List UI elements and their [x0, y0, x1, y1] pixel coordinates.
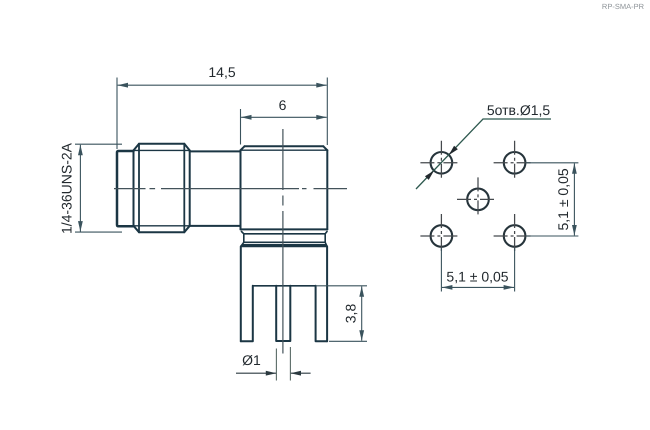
hex nut outer vertical edges — [134, 150, 190, 225]
dimension 6 arrowheads — [241, 115, 327, 120]
hex nut top edge — [139, 143, 184, 145]
flange lines below groove — [241, 242, 327, 246]
mid cylinder top edge — [190, 150, 241, 152]
dimension 5,1 ± 0,05 right extension and dimension lines — [526, 163, 578, 236]
vertical body side edges — [241, 150, 328, 229]
vertical centerline — [282, 129, 284, 354]
svg-text:5,1 ± 0,05: 5,1 ± 0,05 — [446, 269, 508, 285]
cross top-right hole — [494, 162, 536, 164]
cross bottom-left hole — [420, 235, 462, 237]
right mounting leg — [316, 286, 328, 342]
center contact pin — [276, 286, 290, 341]
vertical body top corner chamfers — [241, 146, 328, 150]
dimension 5,1 ± 0,05 bottom arrowheads — [442, 285, 514, 290]
dimension Ø1 arrowheads — [266, 371, 301, 376]
leader line for 5 holes note — [416, 119, 551, 189]
footprint mounting holes — [431, 152, 526, 247]
dimension 6 extension and dimension lines — [241, 109, 327, 145]
side view outline of right-angle connector — [117, 144, 327, 341]
dimension 3,8 arrowheads — [359, 286, 364, 341]
vertical body chamfer base line — [241, 149, 328, 151]
hex nut left corner chamfers — [134, 144, 140, 232]
ring groove band — [242, 232, 328, 243]
svg-text:14,5: 14,5 — [208, 64, 235, 80]
dimension Ø1 dimension lines — [236, 372, 311, 374]
thread dimension arrowheads — [78, 145, 83, 232]
horizontal centerline — [114, 188, 347, 190]
hex nut chamfer base lines — [134, 150, 190, 225]
svg-text:1/4-36UNS-2A: 1/4-36UNS-2A — [59, 142, 75, 234]
hole center — [467, 189, 489, 211]
mid cylinder bottom edge — [190, 225, 241, 227]
dimension 14,5 extension and dimension lines — [117, 78, 327, 150]
svg-text:6: 6 — [279, 97, 287, 113]
svg-text:5отв.Ø1,5: 5отв.Ø1,5 — [487, 102, 551, 118]
cross center hole — [457, 198, 499, 200]
hole top-right — [504, 152, 526, 174]
leg cutout shoulder line — [253, 285, 316, 287]
vertical body bottom edge — [241, 228, 328, 230]
thread dimension extension and dimension lines — [75, 144, 122, 232]
svg-text:RP-SMA-PR: RP-SMA-PR — [602, 2, 645, 11]
hole bottom-left — [431, 225, 453, 247]
hex nut inner vertical edges — [139, 144, 184, 232]
dimension Ø1 extension lines — [276, 347, 290, 381]
cross top-left hole — [420, 162, 462, 164]
dimension 3,8 extension and dimension lines — [316, 286, 367, 342]
hole bottom-right — [504, 225, 526, 247]
svg-text:5,1 ± 0,05: 5,1 ± 0,05 — [555, 168, 571, 230]
dimension 5,1 ± 0,05 bottom extension and dimension lines — [441, 248, 514, 292]
hex nut bottom edge — [139, 231, 184, 233]
hole centerline crosses — [420, 141, 535, 258]
lower body side edges — [241, 246, 327, 341]
leader arrowhead lower — [425, 171, 434, 180]
hex nut right corner chamfers — [184, 144, 189, 232]
svg-text:3,8: 3,8 — [343, 304, 359, 324]
svg-text:Ø1: Ø1 — [242, 352, 261, 368]
front coupling ring — [117, 151, 134, 226]
left mounting leg — [241, 286, 253, 342]
dimension 14,5 arrowheads — [118, 83, 327, 88]
vertical body top edge — [245, 145, 324, 147]
cross bottom-right hole — [494, 235, 536, 237]
dimension 5,1 ± 0,05 right arrowheads — [572, 163, 577, 235]
leader arrowhead upper — [449, 146, 458, 155]
hole top-left — [431, 152, 453, 174]
